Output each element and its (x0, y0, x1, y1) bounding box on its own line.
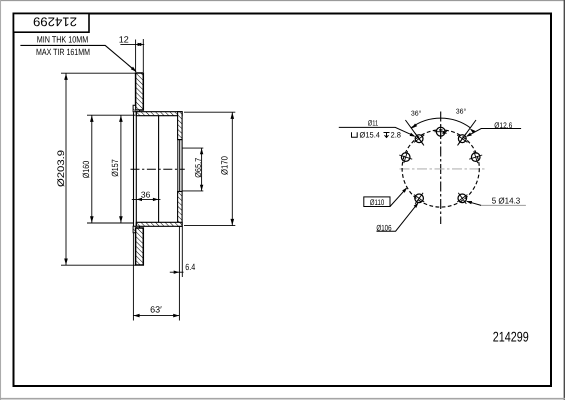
dimension D157 line (120, 115, 122, 223)
title box (14, 14, 90, 33)
dimension D160 line (91, 115, 93, 223)
dimension 12 line (120, 43, 144, 45)
image edge lines (0, 0, 565, 2)
dimension 12 extension lines (135, 40, 137, 73)
svg-text:6.4: 6.4 (185, 262, 195, 272)
disc friction ring bottom (section hatch) (136, 228, 144, 265)
disc friction ring top (section hatch) (136, 73, 144, 110)
leader D12.6 (467, 129, 521, 137)
svg-text:Ø157: Ø157 (110, 159, 120, 177)
svg-text:MAX TIR 161MM: MAX TIR 161MM (36, 47, 90, 57)
hole D12.6 at +36deg (457, 133, 467, 144)
dimension D170 extension lines (184, 111, 235, 113)
svg-text:Ø15.4: Ø15.4 (360, 131, 381, 140)
dimension D203.9 extension lines (61, 72, 136, 74)
svg-text:Ø65.7: Ø65.7 (193, 158, 203, 178)
hat mounting face upper part (178, 112, 183, 140)
svg-text:Ø110: Ø110 (370, 198, 385, 207)
dimension D65.7 extension lines (183, 147, 204, 149)
svg-text:5 Ø14.3: 5 Ø14.3 (492, 196, 521, 206)
svg-text:214299: 214299 (493, 329, 529, 345)
angle dimension arc (411, 118, 470, 128)
svg-text:36°: 36° (411, 111, 422, 118)
centre bore surface lines (177, 140, 179, 192)
hole D11 at -36deg (414, 133, 424, 144)
dimension 6.4 extension lines (178, 227, 180, 277)
svg-text:Ø170: Ø170 (220, 156, 230, 175)
svg-text:214299: 214299 (33, 14, 77, 28)
groove cylindrical surface lines (133, 112, 135, 226)
dimension 6.4 line (170, 271, 184, 273)
svg-text:Ø203.9: Ø203.9 (56, 150, 67, 187)
hat interior feature line (158, 116, 160, 223)
dimension D203.9 line (65, 73, 67, 265)
dimension 36 line (132, 198, 161, 200)
dimension D65.7 line (201, 148, 203, 191)
bolt hole top (434, 125, 447, 139)
right view vertical centerline (440, 112, 442, 225)
dimension D160 extension lines (87, 114, 135, 116)
36deg radial extension line right (458, 120, 477, 145)
svg-text:12: 12 (119, 34, 129, 44)
right view horizontal centerline (gray) (400, 168, 485, 170)
label counterbore note (352, 132, 358, 137)
left view horizontal centerline (131, 168, 185, 170)
bolt hole -72deg (399, 151, 412, 163)
groove notch top (133, 105, 139, 111)
svg-text:36: 36 (141, 190, 151, 200)
dimension D170 line (231, 112, 233, 225)
svg-text:Ø11: Ø11 (368, 119, 379, 128)
leader D110 (390, 188, 407, 206)
svg-text:63′: 63′ (150, 305, 162, 315)
bolt circle (dashed) (402, 130, 479, 207)
36deg radial extension line left (405, 120, 424, 145)
leader D11 (339, 127, 414, 135)
leader 5 D14.3 (gray underline) (481, 204, 526, 206)
svg-text:Ø160: Ø160 (81, 161, 91, 179)
hat cylinder wall bottom (136, 222, 182, 226)
svg-text:MIN THK 10MM: MIN THK 10MM (37, 34, 89, 44)
dimension 63 line (133, 315, 179, 317)
bolt hole -144deg (414, 193, 424, 204)
hat cylinder wall top (136, 112, 182, 116)
label D110 boxed (364, 197, 390, 207)
svg-text:Ø12.6: Ø12.6 (494, 121, 512, 130)
svg-text:Ø106: Ø106 (376, 224, 392, 233)
note leader line (20, 45, 135, 71)
direction arrow on bolt circle (442, 131, 447, 134)
leader D106 (377, 203, 418, 231)
bolt hole +72deg (469, 151, 482, 163)
groove notch bottom (133, 226, 139, 232)
hat mounting face lower part (178, 192, 183, 227)
svg-text:2.8: 2.8 (391, 131, 402, 140)
dimension 63 extension lines (132, 233, 134, 321)
svg-text:36°: 36° (456, 109, 467, 116)
bolt hole +144deg (457, 193, 467, 204)
